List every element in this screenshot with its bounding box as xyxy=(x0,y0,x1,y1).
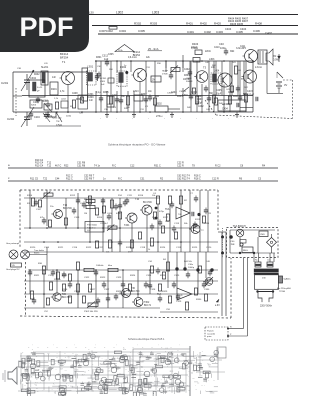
switch S1 xyxy=(277,72,283,78)
node tick labels above bus c xyxy=(30,175,262,181)
svg-text:R10 C4: R10 C4 xyxy=(35,159,44,162)
op-amp U1 xyxy=(165,207,190,219)
svg-text:R7: R7 xyxy=(141,366,143,368)
transistor T6 xyxy=(242,66,263,83)
svg-text:R C: R C xyxy=(112,164,116,167)
wire dashed bottom link xyxy=(205,100,293,119)
trimmer C210 xyxy=(43,100,52,117)
svg-text:R303: R303 xyxy=(150,21,158,25)
svg-text:C31 R8: C31 R8 xyxy=(77,164,86,167)
small box P1 xyxy=(151,76,161,82)
connector box prise xyxy=(205,327,248,341)
resistor R406 mid xyxy=(234,66,241,74)
svg-text:C305: C305 xyxy=(108,54,114,56)
svg-text:BC170C: BC170C xyxy=(62,297,71,299)
capacitor label C307C302 xyxy=(99,29,113,33)
svg-text:4k7: 4k7 xyxy=(68,356,71,358)
svg-text:S+25: S+25 xyxy=(37,87,43,89)
label BF2 group xyxy=(133,51,141,57)
svg-text:C402: C402 xyxy=(204,30,211,34)
coil L204 box xyxy=(61,99,68,109)
svg-text:C31 R8: C31 R8 xyxy=(77,162,86,165)
svg-text:C304: C304 xyxy=(119,29,126,33)
svg-text:C62 R12 T4: C62 R12 T4 xyxy=(177,177,191,180)
transformer TR primary bar xyxy=(254,269,279,272)
driver transformer TR2 xyxy=(211,67,222,96)
svg-text:R124: R124 xyxy=(160,247,166,249)
node label R303 xyxy=(150,21,158,25)
faint dark specks xyxy=(22,351,210,393)
svg-text:C313: C313 xyxy=(133,91,139,93)
wire bus c xyxy=(8,176,278,181)
svg-text:L303: L303 xyxy=(152,10,159,14)
faint transistor circles xyxy=(22,357,181,393)
svg-text:C204: C204 xyxy=(43,100,49,102)
wire left mid rail xyxy=(22,95,253,97)
svg-text:R18 C: R18 C xyxy=(194,177,201,180)
middle amp gap fillers row2 xyxy=(54,261,212,281)
left tuner extra parts xyxy=(13,96,76,108)
svg-text:T201: T201 xyxy=(124,224,130,227)
svg-text:C52 R9 T: C52 R9 T xyxy=(84,175,95,178)
svg-text:T4 1n: T4 1n xyxy=(94,164,101,167)
svg-text:BC170C: BC170C xyxy=(63,207,72,210)
svg-text:T1: T1 xyxy=(62,60,66,64)
svg-text:L301: L301 xyxy=(87,65,94,69)
svg-text:R117: R117 xyxy=(163,217,169,219)
svg-text:R301: R301 xyxy=(96,57,102,59)
svg-text:BC171: BC171 xyxy=(144,305,152,307)
wire to TBA xyxy=(218,228,227,258)
svg-text:C204: C204 xyxy=(34,116,40,119)
svg-text:D70B: D70B xyxy=(162,74,168,76)
svg-text:C120: C120 xyxy=(206,247,212,249)
capacitor label C403 xyxy=(216,30,223,34)
svg-text:C328: C328 xyxy=(150,289,156,291)
thermal fuse box xyxy=(279,276,292,283)
wire bus line 1 xyxy=(60,14,298,16)
svg-text:R202 1kΩ: R202 1kΩ xyxy=(52,118,62,120)
IF transformer L302 xyxy=(117,65,128,86)
svg-text:3V: 3V xyxy=(284,83,287,87)
resistor R311 xyxy=(76,262,91,292)
wire vertical drops bottom xyxy=(96,84,224,112)
svg-text:C4: C4 xyxy=(105,360,107,362)
capacitor row top circuit xyxy=(99,94,242,105)
wire faint rails xyxy=(18,346,225,396)
svg-text:220Ω: 220Ω xyxy=(205,51,211,53)
wire right bottom xyxy=(267,61,283,94)
svg-text:R C: R C xyxy=(118,177,122,180)
svg-text:a 6V: a 6V xyxy=(215,305,220,307)
tuning capacitor C202 xyxy=(7,107,34,127)
svg-text:R406 R405: R406 R405 xyxy=(230,22,244,26)
wire preamp rail 1 xyxy=(24,197,160,199)
svg-text:C113: C113 xyxy=(174,223,180,225)
svg-text:25 - 3mA: 25 - 3mA xyxy=(148,47,159,51)
loudspeaker faint LS2 xyxy=(3,367,17,384)
svg-text:TbA: TbA xyxy=(165,208,170,211)
transistor T102 xyxy=(135,198,152,215)
svg-text:Trou debts: Trou debts xyxy=(34,249,44,252)
transistor T103 xyxy=(124,213,137,227)
resistor R401m xyxy=(163,259,170,271)
node +6V arrow xyxy=(215,299,220,307)
junction dots left lower xyxy=(47,111,83,113)
middle amp gap fillers row3 xyxy=(32,294,208,314)
resistor R107 xyxy=(95,238,153,254)
loudspeaker LS1 xyxy=(266,49,279,65)
svg-text:C404: C404 xyxy=(240,27,247,31)
wire vertical L303 xyxy=(166,55,183,68)
wire bus line 3 xyxy=(98,33,298,35)
svg-text:R125: R125 xyxy=(192,247,198,249)
resistor row top circuit xyxy=(109,94,247,105)
svg-text:7MF: 7MF xyxy=(231,244,236,246)
volume potentiometer P101 xyxy=(40,192,53,201)
faint box top right xyxy=(217,347,226,358)
PDF badge xyxy=(0,0,89,52)
svg-text:C410: C410 xyxy=(214,47,220,49)
svg-text:C4: C4 xyxy=(59,363,61,365)
svg-text:L303: L303 xyxy=(209,58,215,61)
svg-text:T2: T2 xyxy=(141,355,143,357)
svg-text:C406: C406 xyxy=(253,29,260,33)
svg-text:100μ: 100μ xyxy=(220,46,226,50)
label current 25-3mA xyxy=(148,47,163,51)
svg-text:R121: R121 xyxy=(58,247,64,249)
op-amp U2 xyxy=(157,288,192,300)
triac symbol TBA xyxy=(229,229,246,246)
svg-text:0,5W: 0,5W xyxy=(273,59,279,62)
extra caps mid xyxy=(34,198,197,233)
wire bus a xyxy=(8,163,278,168)
svg-text:C325: C325 xyxy=(174,275,180,277)
transistor T401 variable xyxy=(203,277,213,286)
svg-text:R304: R304 xyxy=(184,75,190,77)
svg-text:C321: C321 xyxy=(48,275,54,277)
svg-text:R305: R305 xyxy=(103,92,109,94)
svg-text:R12 C: R12 C xyxy=(66,177,73,180)
svg-text:TA BF: TA BF xyxy=(162,70,169,73)
wire antenna to dashed gang xyxy=(15,88,17,116)
svg-text:C202: C202 xyxy=(7,117,15,121)
svg-text:C44: C44 xyxy=(55,177,60,180)
svg-text:220V 50Hz: 220V 50Hz xyxy=(260,304,273,307)
svg-text:4k7: 4k7 xyxy=(81,374,84,376)
svg-text:C404: C404 xyxy=(225,27,232,31)
svg-text:C304Ω: C304Ω xyxy=(179,91,186,93)
svg-text:C307C302: C307C302 xyxy=(99,29,113,33)
capacitor C312 xyxy=(102,55,109,67)
svg-text:CMS: CMS xyxy=(260,234,265,236)
junction dots baseline xyxy=(67,111,225,113)
svg-text:10μF: 10μF xyxy=(216,94,222,96)
svg-text:C117: C117 xyxy=(98,247,104,249)
svg-text:1u: 1u xyxy=(197,383,199,385)
dashed enclosure TBA800 xyxy=(227,225,279,258)
resistor R301 xyxy=(38,263,46,274)
wire left lower rail xyxy=(37,125,81,127)
svg-text:C402: C402 xyxy=(184,69,190,71)
svg-text:R22: R22 xyxy=(64,164,69,167)
svg-text:R10 C4: R10 C4 xyxy=(35,162,44,165)
middle amp gap fillers row1 xyxy=(100,195,174,226)
capacitor label C406 xyxy=(253,29,260,33)
svg-text:470μ: 470μ xyxy=(159,211,165,213)
wire lower rail 4 xyxy=(24,307,160,309)
svg-text:4k7: 4k7 xyxy=(60,368,63,370)
wire left vertical xyxy=(12,72,14,112)
capacitor C302 xyxy=(51,270,55,277)
svg-text:C12 R: C12 R xyxy=(212,177,219,180)
resistor R101 xyxy=(27,198,35,206)
svg-text:R327: R327 xyxy=(90,289,96,291)
capacitor label C305 xyxy=(138,29,145,33)
resistor R104 xyxy=(110,200,113,208)
svg-text:R119: R119 xyxy=(195,219,201,221)
faint inner frame 2 xyxy=(28,356,130,388)
svg-text:R18 C: R18 C xyxy=(194,175,201,178)
wire lower rail 3 xyxy=(24,293,218,295)
svg-text:0,5pF: 0,5pF xyxy=(56,124,63,127)
svg-text:4k7 C: 4k7 C xyxy=(55,164,62,167)
fuse F1 xyxy=(255,260,261,268)
svg-text:L30: L30 xyxy=(89,10,94,14)
resistor label R401 xyxy=(186,22,193,26)
resistor R201 xyxy=(50,82,58,95)
svg-text:R12: R12 xyxy=(170,371,173,373)
svg-text:R403: R403 xyxy=(214,22,221,26)
svg-text:C305: C305 xyxy=(138,29,145,33)
svg-text:C119: C119 xyxy=(176,247,182,249)
antenna trimmer capacitor C201 xyxy=(1,70,34,91)
wire top rail main xyxy=(95,60,253,62)
capacitor label C402 xyxy=(204,30,211,34)
svg-text:TPGB: TPGB xyxy=(279,291,285,293)
svg-text:P10 50kΩ: P10 50kΩ xyxy=(87,225,97,227)
top circuit extra parts xyxy=(169,73,249,106)
svg-text:R116: R116 xyxy=(138,195,144,197)
dashed enclosure right edge xyxy=(217,190,219,232)
resistor R105 xyxy=(153,193,160,204)
svg-text:BC170C: BC170C xyxy=(131,291,140,293)
svg-text:C405: C405 xyxy=(216,90,222,92)
capacitor C103 xyxy=(101,198,105,205)
IF transformer L301 xyxy=(87,65,102,86)
transistor T2 xyxy=(132,69,147,113)
extra lower mid parts xyxy=(62,282,206,304)
regulator box REG xyxy=(242,231,268,253)
wire TBA internal top xyxy=(230,230,275,253)
wire preamp rail 3 xyxy=(24,241,218,243)
resistor R304 xyxy=(124,96,130,110)
svg-text:R328: R328 xyxy=(116,291,122,293)
svg-text:1u: 1u xyxy=(92,379,94,381)
wire preamp rail 4 xyxy=(24,251,218,253)
svg-text:5μA/0a: 5μA/0a xyxy=(284,278,292,281)
resistor R301 box xyxy=(107,96,114,107)
resistor label R408 xyxy=(255,22,262,26)
wire preamp verticals 1 xyxy=(30,190,78,228)
potentiometer P10 50k xyxy=(85,222,117,233)
svg-text:R403: R403 xyxy=(192,42,199,46)
svg-text:T10: T10 xyxy=(135,198,140,201)
resistor filter R310 xyxy=(84,264,118,272)
junction blob U1 out xyxy=(192,212,201,216)
svg-text:C329: C329 xyxy=(176,301,182,303)
svg-text:100kHz: 100kHz xyxy=(96,265,103,267)
capacitor C402 mid xyxy=(183,69,192,81)
svg-text:C203: C203 xyxy=(26,118,32,121)
capacitor label C405 xyxy=(236,30,243,34)
wire dashed battery link xyxy=(283,80,293,119)
ferrite antenna triangle xyxy=(115,45,134,52)
capacitor C310m xyxy=(94,270,125,289)
component cluster mid xyxy=(134,95,152,109)
svg-text:27Kω: 27Kω xyxy=(156,115,162,118)
oscillator coil L201 xyxy=(41,66,49,85)
svg-text:0,1μ: 0,1μ xyxy=(96,92,101,94)
svg-text:L302: L302 xyxy=(116,10,123,14)
wire connector drops xyxy=(222,232,226,316)
svg-text:R302: R302 xyxy=(134,21,142,25)
svg-text:C309: C309 xyxy=(100,81,106,83)
svg-text:Piano5: Piano5 xyxy=(207,331,214,333)
svg-text:R402: R402 xyxy=(200,22,207,26)
faint top labels row xyxy=(28,345,180,350)
svg-text:●R405: ●R405 xyxy=(222,103,230,106)
node tick labels above bus a xyxy=(35,159,266,168)
svg-text:C323: C323 xyxy=(116,277,122,279)
capacitor C201 tone xyxy=(190,193,198,202)
capacitor C301 xyxy=(28,270,32,277)
dashed enclosure preamp xyxy=(20,190,231,318)
transistor T1 xyxy=(60,52,75,85)
svg-text:R321: R321 xyxy=(34,275,40,277)
transistor T302 xyxy=(132,298,152,308)
label R202 1k xyxy=(52,116,71,123)
node label L302 xyxy=(116,10,123,14)
microphone PU5 xyxy=(6,242,44,271)
svg-text:1nF: 1nF xyxy=(52,77,57,79)
wire lower verticals xyxy=(30,270,150,308)
resistor label R402 xyxy=(200,22,207,26)
caption middle schematic xyxy=(128,337,165,341)
faint inner frame 1 xyxy=(133,349,190,386)
resistor label R403 xyxy=(214,22,221,26)
transistor T4 xyxy=(216,47,244,87)
svg-text:R7: R7 xyxy=(23,365,25,367)
svg-text:raccorde: raccorde xyxy=(207,332,216,335)
svg-text:10n: 10n xyxy=(70,386,73,388)
node label L303 xyxy=(89,10,159,14)
svg-text:4k7: 4k7 xyxy=(193,358,196,360)
fuse F2 xyxy=(267,259,273,268)
svg-text:R324: R324 xyxy=(130,275,136,277)
junction dots top rail xyxy=(95,60,254,62)
svg-text:R114: R114 xyxy=(97,217,103,219)
svg-text:1000μ: 1000μ xyxy=(188,267,195,269)
svg-text:C327: C327 xyxy=(104,289,110,291)
capacitor C104 xyxy=(118,203,122,210)
svg-text:R32 1k: R32 1k xyxy=(54,279,62,281)
label 220V 50Hz xyxy=(260,304,273,307)
svg-text:R112: R112 xyxy=(70,195,76,197)
wire lower rail 1 xyxy=(28,247,218,270)
resistor labels R404-R407 xyxy=(228,16,249,25)
svg-text:C52 R9 T: C52 R9 T xyxy=(84,177,95,180)
faint stub wires xyxy=(21,351,218,394)
svg-text:C324: C324 xyxy=(146,275,152,277)
transformer TR secondary bar xyxy=(254,273,279,275)
svg-text:10n: 10n xyxy=(29,377,32,379)
svg-text:C301: C301 xyxy=(88,94,94,96)
svg-text:1u: 1u xyxy=(100,361,102,363)
svg-text:R122: R122 xyxy=(86,247,92,249)
battery B1 3V xyxy=(276,82,287,93)
wire bus line 2 xyxy=(92,25,298,27)
svg-text:39Ω: 39Ω xyxy=(230,51,235,53)
svg-text:R401: R401 xyxy=(186,22,193,26)
svg-text:R11 C5: R11 C5 xyxy=(30,177,39,180)
transistor T5 xyxy=(243,47,258,63)
wire extra verticals top xyxy=(101,61,246,112)
svg-text:1M: 1M xyxy=(84,213,87,215)
svg-text:R325: R325 xyxy=(160,275,166,277)
svg-text:R323: R323 xyxy=(100,277,106,279)
capacitor C205 xyxy=(33,97,40,105)
svg-text:R204: R204 xyxy=(76,99,82,101)
svg-text:C309: C309 xyxy=(88,97,94,99)
svg-text:PDF: PDF xyxy=(20,12,74,42)
wire TBA drops xyxy=(244,253,275,336)
capacitor label C407 xyxy=(265,31,272,35)
svg-text:C116: C116 xyxy=(72,247,78,249)
wire main baseline xyxy=(13,111,253,113)
svg-text:R110: R110 xyxy=(27,195,33,197)
ground symbols top xyxy=(46,112,239,117)
capacitor C204 trimmer xyxy=(34,112,63,127)
svg-text:R123: R123 xyxy=(126,247,132,249)
wire mid verticals right xyxy=(168,252,206,294)
svg-text:C326: C326 xyxy=(74,291,80,293)
wire TBA internal bottom xyxy=(230,237,275,254)
output transformer TR3 xyxy=(258,50,267,64)
coil L203 xyxy=(42,100,52,110)
capacitor C303 box xyxy=(109,27,117,30)
box right of T1 xyxy=(78,95,88,115)
left tuner labels xyxy=(17,62,237,111)
svg-text:C403: C403 xyxy=(216,30,223,34)
svg-text:C107: C107 xyxy=(36,209,42,211)
svg-text:C115: C115 xyxy=(44,247,50,249)
svg-text:R120: R120 xyxy=(30,247,36,249)
capacitor C401m polarized xyxy=(175,264,213,272)
svg-text:T302: T302 xyxy=(144,302,150,304)
potentiometer P302 xyxy=(84,302,98,314)
resistor R102 xyxy=(84,196,92,204)
capacitor label C401 xyxy=(187,30,194,34)
svg-text:10n: 10n xyxy=(135,368,138,370)
svg-text:10n: 10n xyxy=(157,390,160,392)
svg-text:C208: C208 xyxy=(72,93,78,95)
faint reference text specks xyxy=(21,348,217,395)
svg-text:C4: C4 xyxy=(165,348,167,350)
svg-text:Alu 220v-pRH: Alu 220v-pRH xyxy=(277,287,291,290)
svg-text:0,6-1mA: 0,6-1mA xyxy=(128,56,137,59)
svg-text:C402: C402 xyxy=(198,106,204,108)
